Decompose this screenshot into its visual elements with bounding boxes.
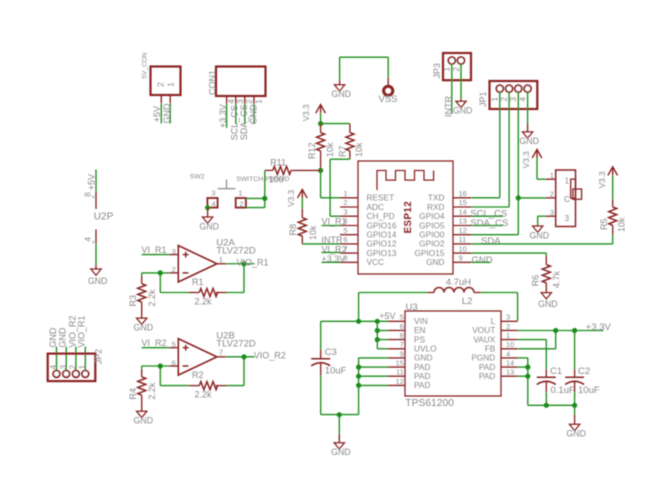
junction C2 ground / GND bbox=[572, 403, 577, 408]
svg-text:JP1: JP1 bbox=[478, 91, 488, 107]
wire net GND at 5V_CON bbox=[169, 103, 171, 123]
wire L2 loop left bbox=[358, 293, 360, 322]
svg-text:2.2k: 2.2k bbox=[195, 297, 213, 307]
JP1 pin 4 pad bbox=[524, 85, 531, 92]
junction C2 / +3.3V bbox=[572, 328, 577, 333]
svg-text:GND: GND bbox=[472, 255, 493, 266]
svg-text:+3.3V: +3.3V bbox=[586, 322, 612, 333]
wire net INTR bbox=[302, 243, 340, 245]
svg-text:4: 4 bbox=[227, 99, 236, 104]
junction VIO_R2 bbox=[241, 354, 246, 359]
R11 right stub bbox=[291, 169, 321, 171]
R8 bottom stub bbox=[301, 236, 303, 244]
U3 pin 11 stub bbox=[388, 375, 405, 377]
wire to R4 bbox=[141, 366, 143, 369]
ESP12 antenna symbol bbox=[377, 171, 434, 191]
wire to R3 bbox=[141, 273, 143, 276]
R5 top stub bbox=[612, 199, 614, 207]
svg-text:9: 9 bbox=[400, 349, 404, 358]
R1 right stub bbox=[216, 292, 227, 294]
svg-text:1: 1 bbox=[506, 331, 510, 340]
switch pin 3 stub bbox=[546, 215, 556, 217]
CON1 pin 1 stub bbox=[253, 96, 255, 104]
svg-text:7: 7 bbox=[400, 340, 404, 349]
CON1 pin 4 stub bbox=[226, 96, 228, 104]
wire C3 to ground rail bbox=[320, 375, 322, 414]
svg-text:0.1uF: 0.1uF bbox=[551, 385, 575, 396]
svg-text:C3: C3 bbox=[325, 347, 337, 358]
wire net VIO_R1 to JP2 bbox=[84, 347, 86, 371]
R11 left stub bbox=[265, 169, 273, 171]
svg-text:3: 3 bbox=[343, 207, 347, 216]
svg-text:TPS61200: TPS61200 bbox=[405, 398, 454, 409]
ground bbox=[533, 226, 543, 232]
svg-text:GND: GND bbox=[519, 136, 539, 146]
VSS pad stub bbox=[387, 77, 389, 86]
svg-text:R3: R3 bbox=[128, 295, 138, 307]
ESP12 pin 2 stub bbox=[340, 206, 358, 208]
connector JP3 body bbox=[443, 53, 471, 80]
svg-text:U2P: U2P bbox=[94, 211, 114, 222]
SW2 left contact bbox=[207, 198, 217, 208]
wire net VI_R2 to U2B + bbox=[142, 347, 170, 349]
resistor R8 bbox=[298, 218, 306, 236]
svg-text:5V_CON: 5V_CON bbox=[141, 52, 148, 78]
U2P pin 4 bbox=[95, 229, 97, 243]
svg-text:VCC: VCC bbox=[367, 257, 385, 267]
U3 pin 15 stub bbox=[388, 366, 405, 368]
junction ground rail bbox=[337, 412, 342, 417]
connector 5V_CON body bbox=[151, 67, 181, 96]
U3 pin 12 stub bbox=[388, 384, 405, 386]
U2B pin 6 stub bbox=[169, 365, 178, 367]
wire V3.3 stem bbox=[320, 113, 322, 124]
svg-text:SW2: SW2 bbox=[190, 173, 205, 180]
wire down to ground bbox=[338, 415, 340, 434]
svg-text:v: v bbox=[92, 194, 95, 200]
svg-text:VIO_R2: VIO_R2 bbox=[254, 351, 286, 361]
junction PAD 15 bbox=[356, 365, 361, 370]
svg-text:VSS: VSS bbox=[379, 94, 398, 105]
ESP12 pin 14 stub bbox=[453, 215, 471, 217]
svg-text:12: 12 bbox=[459, 226, 467, 235]
wire to EN bbox=[377, 330, 388, 332]
wire net VIO_R2 to JP2 bbox=[75, 347, 77, 371]
U2A plus sign bbox=[183, 254, 189, 256]
svg-text:+5V: +5V bbox=[152, 106, 162, 122]
wire down to ground bbox=[574, 405, 576, 414]
svg-text:C1: C1 bbox=[550, 366, 562, 377]
wire JP3 pin2 to ground bbox=[460, 64, 462, 99]
wire down to ground bbox=[537, 216, 539, 224]
wire +3.3V to C2 bbox=[574, 331, 576, 370]
svg-text:GND: GND bbox=[134, 322, 154, 332]
wire net VIO_R1 bbox=[226, 263, 255, 265]
wire junction to switch common bbox=[518, 197, 545, 199]
svg-text:10uF: 10uF bbox=[578, 385, 600, 396]
svg-text:L2: L2 bbox=[462, 296, 473, 307]
svg-text:GND: GND bbox=[331, 89, 351, 99]
svg-text:R12: R12 bbox=[307, 142, 317, 159]
wire net GND at CON1 bbox=[253, 104, 255, 125]
ESP12 pin 7 stub bbox=[340, 252, 358, 254]
svg-text:GND: GND bbox=[426, 257, 444, 267]
supply V3.3 arrow bbox=[532, 149, 542, 158]
svg-text:3: 3 bbox=[565, 214, 570, 223]
R3 bottom stub bbox=[141, 302, 143, 318]
supply V3.3 arrow bbox=[298, 189, 308, 198]
U3 pin 8 stub bbox=[388, 339, 405, 341]
junction PAD 14 bbox=[525, 365, 530, 370]
wire PAD 11 bbox=[359, 375, 388, 377]
wire GND pin to tie bbox=[359, 357, 388, 359]
svg-text:GND: GND bbox=[88, 276, 108, 286]
wire net +3.3V bbox=[322, 261, 341, 263]
ground stub bbox=[338, 434, 340, 443]
svg-text:v: v bbox=[92, 239, 95, 245]
R2 right stub bbox=[216, 385, 227, 387]
wire net VI_R1 to U2A + bbox=[142, 254, 170, 256]
supply V3.3 arrow bbox=[608, 167, 618, 176]
svg-text:8: 8 bbox=[400, 331, 404, 340]
wire GPIO15 to R6 bbox=[471, 252, 546, 254]
svg-text:10: 10 bbox=[459, 244, 467, 253]
supply V3.3 arrow bbox=[316, 105, 326, 114]
svg-text:10k: 10k bbox=[308, 225, 318, 240]
svg-text:+3.3V: +3.3V bbox=[218, 104, 228, 128]
wire to R2 bbox=[227, 385, 245, 387]
wire JP1 pin4 to ground bbox=[527, 92, 529, 124]
svg-text:15: 15 bbox=[459, 198, 467, 207]
svg-text:1: 1 bbox=[565, 176, 570, 185]
R4 bottom stub bbox=[141, 395, 143, 411]
wire GPIO0 to JP1/switch bbox=[471, 234, 518, 236]
svg-text:VI_R1: VI_R1 bbox=[142, 245, 167, 255]
IC U1 ESP12 body bbox=[358, 161, 453, 274]
wire PAD 13 bbox=[518, 375, 528, 377]
wire net GND to JP2 bbox=[56, 347, 58, 371]
ground stub bbox=[207, 208, 209, 217]
U3 pin 5 stub bbox=[388, 320, 405, 322]
wire net +5V at 5V_CON bbox=[160, 103, 162, 123]
ground stub bbox=[574, 415, 576, 425]
junction SW2 pins 3/4 to ground bbox=[205, 205, 210, 210]
svg-text:14: 14 bbox=[459, 207, 467, 216]
svg-text:1: 1 bbox=[165, 82, 175, 87]
wire U2P to ground bbox=[95, 243, 97, 264]
resistor R3 bbox=[138, 284, 146, 302]
wire VAUX bbox=[518, 339, 547, 341]
SW2 actuator bar bbox=[218, 188, 236, 190]
JP2 pin 1 pad bbox=[82, 371, 89, 378]
svg-text:V3.3: V3.3 bbox=[522, 151, 531, 168]
svg-text:R7: R7 bbox=[337, 145, 347, 157]
svg-text:GND: GND bbox=[331, 447, 351, 457]
ESP12 pin 4 stub bbox=[340, 225, 358, 227]
svg-text:SDA_CS: SDA_CS bbox=[470, 218, 508, 229]
C3 bottom stub bbox=[320, 363, 322, 376]
svg-text:ESP12: ESP12 bbox=[403, 201, 414, 234]
junction R12 / R11 / RESET bbox=[318, 168, 323, 173]
wire to PS bbox=[377, 339, 388, 341]
U3 pin 2 stub bbox=[501, 329, 518, 331]
svg-text:2: 2 bbox=[239, 200, 243, 209]
ground bbox=[334, 85, 344, 91]
wire net +3.3V from VOUT bbox=[518, 330, 604, 332]
resistor R12 bbox=[317, 133, 325, 151]
SW2 actuator stem bbox=[226, 179, 228, 188]
wire SW2 pin1 to R11 bbox=[246, 197, 265, 199]
switch S1 body bbox=[556, 170, 576, 227]
wire net +5V to VIN bbox=[321, 320, 388, 322]
5V_CON pin 2 stub bbox=[160, 95, 162, 103]
op-amp U2A triangle bbox=[178, 246, 217, 283]
ground bbox=[569, 424, 579, 430]
junction U2A feedback bbox=[158, 270, 163, 275]
CON1 pin 2 stub bbox=[244, 96, 246, 104]
R5 bottom stub bbox=[612, 225, 614, 234]
wire feedback down bbox=[243, 264, 245, 293]
wire switch pin3 to ground bbox=[538, 215, 546, 217]
wire down to VSS pad bbox=[387, 57, 389, 77]
C1 top stub bbox=[545, 369, 547, 377]
JP1 pin 2 pad bbox=[506, 85, 513, 92]
connector CON1 body bbox=[216, 67, 266, 97]
svg-text:2: 2 bbox=[245, 99, 254, 104]
wire net SDA bbox=[471, 243, 613, 245]
U2B pin 7 stub bbox=[217, 356, 226, 358]
wire down to ground bbox=[339, 57, 341, 80]
svg-text:11: 11 bbox=[459, 235, 467, 244]
resistor R7 bbox=[346, 133, 354, 151]
svg-text:4: 4 bbox=[506, 349, 510, 358]
svg-text:GND: GND bbox=[538, 299, 558, 309]
U3 pin 10 stub bbox=[501, 348, 518, 350]
inductor L2 bbox=[434, 288, 474, 293]
wire L2 to L pin bbox=[481, 292, 518, 294]
svg-text:GND: GND bbox=[453, 106, 473, 116]
JP3 pin 1 pad bbox=[448, 57, 455, 64]
wire PAD 14 bbox=[518, 366, 528, 368]
resistor R6 bbox=[542, 265, 550, 283]
ground stub bbox=[537, 225, 539, 227]
svg-text:R1: R1 bbox=[192, 277, 204, 287]
junction C1 ground bbox=[544, 403, 549, 408]
wire U2B - input bbox=[142, 365, 170, 367]
svg-text:R2: R2 bbox=[192, 370, 204, 380]
junction FB / +3.3V bbox=[553, 328, 558, 333]
wire JP1 pin1 to TXD bbox=[499, 92, 501, 198]
U3 pin 4 stub bbox=[501, 357, 518, 359]
svg-text:16: 16 bbox=[459, 189, 467, 198]
svg-text:GND: GND bbox=[249, 104, 259, 125]
U2B plus sign bbox=[183, 347, 189, 349]
wire RXD to JP1 bbox=[471, 206, 509, 208]
wire to L2 bbox=[359, 292, 428, 294]
wire net +3.3V at CON1 bbox=[226, 104, 228, 128]
wire feedback vertical bbox=[159, 366, 161, 386]
ground bbox=[91, 269, 101, 275]
U2A minus sign bbox=[183, 272, 189, 274]
ground bbox=[334, 443, 344, 449]
wire FB bbox=[518, 348, 556, 350]
svg-text:2.2k: 2.2k bbox=[147, 382, 157, 400]
svg-text:1: 1 bbox=[343, 189, 347, 198]
svg-text:+5V: +5V bbox=[379, 311, 395, 321]
ground bbox=[137, 318, 147, 324]
wire net VIO_R2 bbox=[226, 356, 255, 358]
wire ground tie vertical bbox=[358, 358, 360, 415]
svg-text:10uF: 10uF bbox=[325, 365, 347, 376]
resistor R5 bbox=[609, 207, 617, 225]
svg-text:7: 7 bbox=[219, 348, 223, 357]
ESP12 pin 11 stub bbox=[453, 243, 471, 245]
wire feedback down bbox=[243, 357, 245, 386]
wire net SDA_CS bbox=[471, 225, 503, 227]
R6 top stub bbox=[545, 256, 547, 265]
CON1 pin 3 stub bbox=[235, 96, 237, 104]
svg-text:2.2k: 2.2k bbox=[195, 390, 213, 400]
wire net VI_R2 bbox=[322, 251, 341, 253]
svg-text:3: 3 bbox=[236, 99, 245, 104]
svg-text:5: 5 bbox=[343, 226, 347, 235]
svg-text:GND: GND bbox=[58, 327, 68, 348]
junction PAD 13 bbox=[525, 374, 530, 379]
wire SW2 loop vertical bbox=[264, 198, 266, 207]
svg-text:1: 1 bbox=[219, 255, 223, 264]
wire into ESP pin 3 bbox=[330, 215, 340, 217]
junction PAD 11 bbox=[356, 374, 361, 379]
svg-text:2: 2 bbox=[155, 82, 165, 87]
JP1 pin 3 pad bbox=[515, 85, 522, 92]
svg-text:13: 13 bbox=[506, 368, 514, 377]
ESP12 pin 15 stub bbox=[453, 206, 471, 208]
L2 left stub bbox=[428, 292, 435, 294]
ESP12 pin 8 stub bbox=[340, 261, 358, 263]
junction SW2 / R11 bbox=[262, 196, 267, 201]
wire R7 to CH_PD bbox=[330, 158, 350, 160]
svg-text:1: 1 bbox=[238, 189, 242, 198]
R12 top stub bbox=[320, 124, 322, 133]
switch pin 1 stub bbox=[546, 178, 556, 180]
wire PGND vertical bbox=[527, 358, 529, 405]
svg-text:GND: GND bbox=[48, 327, 58, 348]
svg-text:14: 14 bbox=[506, 359, 514, 368]
svg-text:4: 4 bbox=[212, 200, 216, 209]
U3 pin 13 stub bbox=[501, 375, 518, 377]
ESP12 pin 5 stub bbox=[340, 234, 358, 236]
wire to R7 top bbox=[321, 123, 350, 125]
L2 right stub bbox=[474, 292, 481, 294]
wire R1 to inverting node bbox=[160, 292, 188, 294]
junction V3.3 / R12 / R7 bbox=[318, 121, 323, 126]
wire JP1 pin3 to GPIO0 bbox=[517, 92, 519, 235]
wire feedback vertical bbox=[159, 273, 161, 293]
R6 bottom stub bbox=[545, 283, 547, 293]
resistor R2 bbox=[199, 382, 217, 390]
svg-text:SDA: SDA bbox=[481, 236, 501, 247]
wire down to RESET bbox=[320, 170, 322, 197]
svg-text:2: 2 bbox=[69, 364, 78, 369]
svg-text:6: 6 bbox=[343, 235, 347, 244]
SW2 right contact bbox=[236, 198, 246, 208]
svg-text:JP2: JP2 bbox=[93, 349, 103, 365]
junction EN bbox=[375, 328, 380, 333]
svg-text:SCL_CS: SCL_CS bbox=[230, 105, 240, 140]
svg-text:2: 2 bbox=[343, 198, 347, 207]
capacitor C1 bbox=[537, 376, 556, 378]
R2 left stub bbox=[189, 385, 200, 387]
svg-text:R6: R6 bbox=[531, 275, 541, 287]
svg-text:1: 1 bbox=[254, 99, 263, 104]
svg-text:GND: GND bbox=[566, 429, 586, 439]
svg-text:R11: R11 bbox=[270, 158, 286, 168]
svg-text:13: 13 bbox=[459, 217, 467, 226]
svg-text:V3.3: V3.3 bbox=[302, 104, 311, 121]
JP2 pin 3 pad bbox=[63, 371, 70, 378]
ground stub bbox=[460, 99, 462, 101]
svg-text:12: 12 bbox=[395, 377, 403, 386]
ESP12 pin 3 stub bbox=[340, 215, 358, 217]
ground stub bbox=[339, 80, 341, 85]
IC U3 TPS61200 body bbox=[405, 311, 501, 396]
svg-text:4: 4 bbox=[49, 364, 58, 369]
C1 bottom stub bbox=[545, 381, 547, 392]
R7 bottom stub bbox=[349, 151, 351, 159]
resistor R1 bbox=[199, 289, 217, 297]
wire net GND at pin9 bbox=[471, 261, 491, 263]
resistor R4 bbox=[138, 377, 146, 395]
wire +5V to C3 bbox=[320, 321, 322, 349]
C3 top stub bbox=[320, 349, 322, 359]
wire TXD to JP1 bbox=[471, 197, 500, 199]
capacitor C3 bbox=[311, 358, 330, 360]
ESP12 pin 12 stub bbox=[453, 234, 471, 236]
svg-text:SWITCH-PBSMD: SWITCH-PBSMD bbox=[236, 176, 289, 183]
U3 pin 9 stub bbox=[388, 357, 405, 359]
ground bbox=[137, 411, 147, 417]
R7 top stub bbox=[349, 124, 351, 133]
wire output ground rail bbox=[528, 404, 575, 406]
svg-text:+5V: +5V bbox=[87, 174, 97, 190]
wire net SDA_CS at CON1 bbox=[244, 104, 246, 125]
ground stub bbox=[527, 123, 529, 131]
capacitor C2 bbox=[565, 376, 584, 378]
wire GPIO15 down to R6 bbox=[545, 253, 547, 256]
svg-text:3: 3 bbox=[211, 189, 215, 198]
R3 top stub bbox=[141, 276, 143, 284]
ESP12 pin 10 stub bbox=[453, 252, 471, 254]
U3 pin 1 stub bbox=[501, 339, 518, 341]
ESP12 pin 9 stub bbox=[453, 261, 471, 263]
junction GPIO0 / JP1 pin3 / switch bbox=[516, 195, 521, 200]
svg-text:VIO_R1: VIO_R1 bbox=[237, 257, 269, 267]
ground bbox=[522, 132, 532, 138]
U2B minus sign bbox=[183, 365, 189, 367]
wire net SCL_CS at CON1 bbox=[235, 104, 237, 125]
junction U2B feedback bbox=[158, 363, 163, 368]
svg-text:9: 9 bbox=[459, 254, 463, 263]
wire V3.3 stem bbox=[612, 175, 614, 199]
ground stub bbox=[95, 265, 97, 270]
JP1 pin 1 pad bbox=[496, 85, 503, 92]
R12 bottom stub bbox=[320, 151, 322, 171]
svg-text:R4: R4 bbox=[128, 388, 138, 400]
svg-text:V3.3: V3.3 bbox=[598, 171, 607, 188]
wire PGND bbox=[518, 357, 528, 359]
wire V3.3 stem bbox=[301, 198, 303, 209]
U2B pin 5 stub bbox=[169, 347, 178, 349]
